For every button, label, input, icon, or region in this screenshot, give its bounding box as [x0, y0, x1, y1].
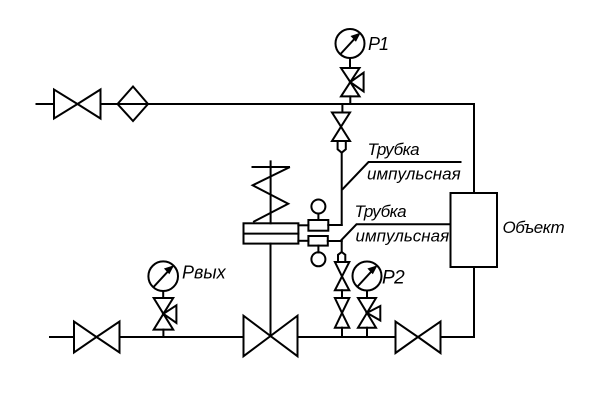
svg-text:Трубка: Трубка: [355, 202, 407, 221]
valve V9 (bottom-right shut-off valve): [396, 322, 441, 354]
wire: gauge P1 stem: [349, 58, 351, 68]
gauge P1 (manometer): [336, 29, 365, 58]
valve V7 (three-way gauge valve under Pout): [154, 298, 177, 330]
valve body of regulator (main valve): [244, 316, 298, 357]
wire: bottom line segment 3: [298, 336, 396, 338]
wire: pilot upper circle link: [317, 214, 319, 221]
wire: stem from junction down to fitting: [341, 241, 343, 252]
wire: gauge Pout stem: [162, 291, 164, 298]
svg-text:P1: P1: [368, 34, 388, 54]
valve V1 (top-left shut-off valve): [54, 90, 101, 119]
gauge Pout (manometer): [148, 261, 178, 291]
wire: bottom line segment 4: [441, 336, 475, 338]
wire: object outlet down: [473, 267, 475, 337]
svg-text:P2: P2: [382, 268, 405, 289]
pilot upper circle: [311, 200, 325, 214]
wire: pilot lower circle link: [317, 246, 319, 253]
leader: label 1 pointer: [343, 162, 461, 189]
wire: stack tick to bottom line: [341, 328, 343, 337]
wire: link between stack valves: [341, 290, 343, 298]
wire: regulator stem down to valve body: [270, 244, 272, 336]
valve V4 (upper valve of drain stack): [335, 262, 349, 290]
wire: impulse tube 1 vertical run: [341, 153, 343, 225]
pilot lower square: [308, 236, 327, 246]
wire: top main line left stub: [37, 103, 55, 105]
valve V6 (three-way gauge valve under P2): [358, 298, 380, 328]
wire: gauge P2 stem: [366, 291, 368, 299]
regulator spring zigzag: [253, 168, 289, 222]
wire: bottom line segment 1: [50, 336, 74, 338]
pilot lower circle: [311, 252, 325, 266]
svg-text:Объект: Объект: [503, 218, 565, 237]
valve V2 (three-way gauge valve under P1): [341, 68, 364, 96]
wire: top main line to right corner: [101, 103, 475, 105]
regulator actuator body: [244, 223, 299, 243]
object box: [451, 193, 498, 267]
pilot upper square: [308, 220, 328, 231]
valve V5 (lower valve of drain stack): [335, 298, 349, 328]
wire: Pout tick to bottom line: [162, 330, 164, 337]
gauge P1 needle: [341, 35, 358, 54]
regulator spring stem: [270, 161, 272, 223]
wire: pilot lower to junction: [328, 240, 342, 242]
wire: impulse tube 1 to pilot upper port: [328, 224, 341, 226]
wire: impulse tube 2 to object: [341, 224, 451, 240]
regulator spring top bar: [253, 166, 290, 168]
wire: P1 assembly tick to main line: [349, 96, 351, 104]
gauge P2 (manometer): [353, 262, 382, 291]
svg-text:импульсная: импульсная: [367, 165, 461, 184]
gauge P2 needle: [358, 268, 375, 287]
wire: impulse tube 1 tick from main line: [341, 104, 343, 113]
wire: actuator to pilot lower: [298, 240, 308, 242]
filter F1 (diamond): [118, 87, 149, 122]
wire: right vertical drop to object box: [473, 104, 475, 193]
valve V3 (shut-off valve on impulse tube 1): [332, 113, 350, 142]
valve V8 (bottom-left shut-off valve): [74, 322, 120, 353]
fitting: union cup above valve V4: [338, 252, 345, 262]
wire: actuator to pilot upper: [298, 224, 308, 226]
svg-text:Рвых: Рвых: [182, 263, 227, 283]
gauge Pout needle: [154, 268, 172, 287]
wire: bottom line segment 2: [120, 336, 244, 338]
fitting: union cup below valve V3: [338, 142, 346, 153]
svg-text:Трубка: Трубка: [368, 140, 420, 159]
regulator actuator midline: [244, 233, 299, 235]
wire: P2 tick to bottom line: [366, 328, 368, 337]
svg-text:импульсная: импульсная: [356, 227, 450, 246]
